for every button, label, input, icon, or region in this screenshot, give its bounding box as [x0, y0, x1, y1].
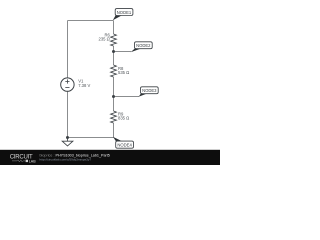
svg-text:835 Ω: 835 Ω	[118, 116, 129, 121]
wire NODE2 stub	[114, 51, 132, 53]
wire left vertical upper (V1 to top corner)	[67, 21, 69, 79]
wire top horizontal from V1 branch to resistor chain	[68, 20, 114, 22]
svg-text:7.38 V: 7.38 V	[78, 83, 90, 88]
wire segment R8 to NODE3 junction	[113, 77, 115, 111]
node NODE1	[113, 9, 133, 21]
svg-text:http://circuitlab.com/c/59dy3m: http://circuitlab.com/c/59dy3mnqw3y7	[40, 158, 92, 162]
svg-text:NODE4: NODE4	[117, 143, 132, 148]
svg-text:235 Ω: 235 Ω	[99, 37, 110, 42]
svg-text:535 Ω: 535 Ω	[118, 70, 129, 75]
svg-text:LAB: LAB	[29, 159, 36, 163]
ground	[62, 138, 73, 146]
svg-text:NODE3: NODE3	[142, 88, 157, 93]
svg-text:NODE2: NODE2	[136, 43, 151, 48]
node NODE3	[139, 87, 159, 97]
resistor R6	[111, 34, 117, 46]
label R6 value	[99, 32, 111, 41]
voltage source V1	[61, 78, 74, 91]
resistor R9	[111, 111, 117, 123]
footer bar	[0, 150, 220, 165]
svg-text:NODE1: NODE1	[117, 10, 132, 15]
resistor R8	[111, 65, 117, 77]
wire left vertical lower (V1 to bottom corner)	[67, 91, 69, 137]
junction NODE3	[112, 95, 115, 98]
node NODE4	[113, 137, 134, 149]
label R9 value	[118, 111, 129, 120]
junction ground node	[66, 136, 69, 139]
footer logo CIRCUIT LAB	[10, 155, 36, 164]
junction NODE2	[112, 50, 115, 53]
label R8 value	[118, 66, 129, 75]
label V1 value	[78, 79, 90, 88]
wire segment R9 to bottom corner	[113, 123, 115, 138]
wire bottom horizontal	[68, 137, 114, 139]
wire segment R6 to NODE2 junction	[113, 46, 115, 65]
wire NODE3 stub	[114, 96, 140, 98]
wire right vertical segment above R6	[113, 21, 115, 35]
node NODE2	[131, 42, 153, 53]
